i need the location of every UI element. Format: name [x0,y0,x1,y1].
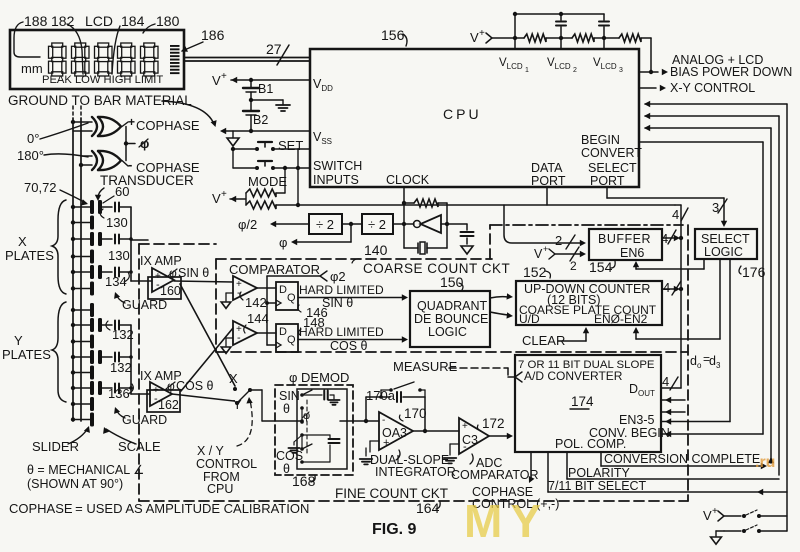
svg-text:φ: φ [279,235,287,250]
svg-text:EN6: EN6 [620,246,644,260]
svg-text:Q: Q [287,334,296,346]
svg-text:176: 176 [742,264,766,280]
svg-text:2: 2 [555,233,562,248]
svg-text:V: V [212,191,221,206]
svg-text:164: 164 [416,500,440,516]
svg-text:Y: Y [14,333,23,348]
svg-text:170: 170 [404,406,427,421]
svg-text:÷ 2: ÷ 2 [316,217,334,232]
svg-text:φ: φ [167,379,175,393]
svg-text:-: - [382,415,385,426]
svg-text:150: 150 [440,274,464,290]
svg-text:DE BOUNCE: DE BOUNCE [414,312,488,326]
svg-text:CONTROL: CONTROL [196,457,257,471]
svg-text:φ/2: φ/2 [238,217,257,232]
svg-text:POLARITY: POLARITY [568,466,630,480]
svg-text:MY: MY [464,495,549,547]
svg-text:X / Y: X / Y [197,444,225,458]
svg-text:ENØ-EN2: ENØ-EN2 [594,312,648,326]
svg-text:φ2: φ2 [330,269,346,284]
svg-text:160: 160 [160,284,181,298]
svg-text:188: 188 [24,13,48,29]
svg-text:PORT: PORT [590,174,625,188]
svg-text:V: V [212,73,221,88]
svg-text:X: X [18,234,27,249]
svg-text:172: 172 [482,416,505,431]
svg-text:EN3-5: EN3-5 [619,413,654,427]
svg-text:GUARD: GUARD [122,298,167,312]
svg-text:174: 174 [571,394,594,409]
svg-text:B1: B1 [258,82,273,96]
svg-text:180°: 180° [17,148,44,163]
svg-text:SIN θ: SIN θ [178,266,209,280]
svg-text:60: 60 [115,184,129,199]
svg-text:HARD LIMITED: HARD LIMITED [299,283,384,297]
svg-text:INTEGRATOR: INTEGRATOR [375,465,456,479]
svg-text:+: + [712,506,718,517]
svg-text:SWITCH: SWITCH [313,159,362,173]
svg-text:+: + [462,421,468,432]
svg-text:COARSE COUNT CKT: COARSE COUNT CKT [363,261,510,276]
svg-text:A/D CONVERTER: A/D CONVERTER [524,369,623,383]
svg-text:CPU: CPU [207,482,233,496]
svg-text:θ = MECHANICAL ∠: θ = MECHANICAL ∠ [27,463,144,477]
svg-text:180: 180 [156,13,180,29]
svg-text:mm: mm [21,61,43,76]
svg-text:168: 168 [292,473,316,489]
svg-text:DATA: DATA [531,161,563,175]
svg-text:θ: θ [283,462,290,476]
svg-text:SET: SET [278,138,303,153]
svg-text:B2: B2 [253,113,268,127]
svg-text:CPU: CPU [443,106,482,122]
svg-text:D: D [279,284,287,296]
svg-text:+: + [128,115,135,129]
svg-text:LCD: LCD [85,13,113,29]
svg-text:COPHASE: COPHASE [136,118,200,133]
svg-text:QUADRANT: QUADRANT [417,299,488,313]
svg-text:-: - [237,332,241,344]
svg-text:134: 134 [105,274,127,289]
svg-text:132: 132 [112,327,134,342]
svg-text:0°: 0° [27,131,39,146]
svg-text:130: 130 [106,215,128,230]
svg-text:FINE COUNT CKT: FINE COUNT CKT [335,486,448,501]
svg-text:CONVERSION COMPLETE: CONVERSION COMPLETE [604,452,760,466]
svg-text:+: + [479,28,485,39]
svg-text:170a: 170a [366,388,396,403]
svg-text:132: 132 [110,360,132,375]
svg-text:V: V [470,30,479,45]
svg-text:SELECT: SELECT [588,161,637,175]
svg-text:θ: θ [283,402,290,416]
svg-text:-: - [128,157,132,172]
svg-text:BEGIN: BEGIN [581,133,620,147]
svg-text:CONVERT: CONVERT [581,146,642,160]
svg-text:7/11 BIT SELECT: 7/11 BIT SELECT [548,479,647,493]
svg-text:V: V [534,247,543,261]
svg-text:+: + [221,71,227,82]
svg-text:PORT: PORT [531,174,566,188]
svg-text:4: 4 [672,207,679,222]
svg-text:1: 1 [525,67,529,74]
svg-text:BIAS POWER DOWN: BIAS POWER DOWN [670,65,792,79]
svg-text:V: V [703,508,712,523]
svg-text:70,72: 70,72 [24,180,57,195]
svg-text:184: 184 [121,13,145,29]
svg-text:156: 156 [381,27,405,43]
svg-text:MODE: MODE [248,174,287,189]
svg-text:D: D [279,326,287,338]
svg-text:+: + [543,244,548,254]
svg-text:2: 2 [573,67,577,74]
svg-text:CLOCK: CLOCK [386,173,430,187]
svg-text:COMPARATOR: COMPARATOR [451,468,539,482]
svg-text:COS: COS [276,449,303,463]
svg-text:SLIDER: SLIDER [32,439,79,454]
svg-text:4: 4 [662,374,669,389]
svg-text:MEASURE: MEASURE [393,359,458,374]
svg-text:X-Y CONTROL: X-Y CONTROL [670,81,755,95]
svg-text:3: 3 [712,200,719,215]
svg-text:PEAK LOW HIGH LIMIT: PEAK LOW HIGH LIMIT [42,74,163,86]
svg-text:+: + [221,189,227,200]
svg-text:PLATES: PLATES [2,347,51,362]
svg-text:FIG. 9: FIG. 9 [372,521,417,538]
svg-text:4: 4 [661,231,668,246]
svg-text:(SHOWN AT 90°): (SHOWN AT 90°) [27,477,123,491]
svg-text:φ: φ [140,136,149,151]
svg-text:OA3: OA3 [382,426,407,440]
svg-text:INPUTS: INPUTS [313,173,359,187]
svg-text:162: 162 [158,398,179,412]
svg-text:X: X [229,371,238,386]
svg-text:POL. COMP.: POL. COMP. [555,437,626,451]
svg-text:152: 152 [523,264,547,280]
svg-text:COMPARATOR: COMPARATOR [229,262,320,277]
svg-text:27: 27 [266,41,282,57]
svg-text:÷ 2: ÷ 2 [368,217,386,232]
svg-text:SELECT: SELECT [701,232,750,246]
svg-text:3: 3 [619,67,623,74]
svg-text:Q: Q [287,292,296,304]
svg-text:COS θ: COS θ [330,339,368,353]
svg-text:2: 2 [570,259,577,273]
svg-text:140: 140 [364,242,388,258]
svg-text:HARD LIMITED: HARD LIMITED [299,325,384,339]
svg-text:COPHASE = USED AS AMPLITUDE CA: COPHASE = USED AS AMPLITUDE CALIBRATION [9,501,309,516]
svg-text:4: 4 [663,280,670,295]
svg-text:142: 142 [245,295,267,310]
svg-text:186: 186 [201,27,225,43]
svg-text:130: 130 [108,248,130,263]
svg-text:144: 144 [247,311,269,326]
svg-text:.ru: .ru [755,454,775,471]
svg-text:LOGIC: LOGIC [704,245,743,259]
svg-text:PLATES: PLATES [5,248,54,263]
svg-text:φ DEMOD: φ DEMOD [289,370,349,385]
svg-text:136: 136 [108,386,130,401]
svg-text:φ: φ [169,266,177,280]
svg-text:U/D: U/D [519,312,540,326]
svg-text:154: 154 [589,259,613,275]
svg-text:LOGIC: LOGIC [428,325,467,339]
svg-text:GUARD: GUARD [122,413,167,427]
svg-text:C3: C3 [462,433,478,447]
svg-text:BUFFER: BUFFER [598,232,651,246]
